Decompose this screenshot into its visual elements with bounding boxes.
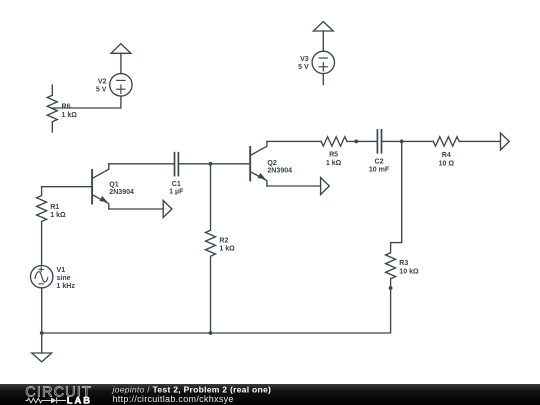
svg-text:joepinto / Test 2, Problem 2 (: joepinto / Test 2, Problem 2 (real one) [112, 384, 272, 394]
svg-text:C1: C1 [172, 181, 181, 188]
svg-text:5 V: 5 V [96, 86, 107, 93]
svg-text:R4: R4 [442, 152, 451, 159]
svg-text:1 kΩ: 1 kΩ [62, 112, 78, 119]
svg-text:R3: R3 [399, 260, 408, 267]
svg-text:1 kΩ: 1 kΩ [50, 212, 66, 219]
svg-text:http://circuitlab.com/ckhxsye: http://circuitlab.com/ckhxsye [113, 394, 234, 404]
svg-text:R6: R6 [62, 104, 71, 111]
svg-text:10 kΩ: 10 kΩ [399, 268, 419, 275]
svg-text:Q2: Q2 [267, 160, 276, 167]
svg-text:C2: C2 [374, 158, 383, 165]
svg-text:R5: R5 [329, 152, 338, 159]
svg-text:R2: R2 [219, 237, 228, 244]
svg-text:R1: R1 [50, 204, 59, 211]
svg-text:1 kΩ: 1 kΩ [326, 160, 342, 167]
svg-text:10 Ω: 10 Ω [439, 161, 455, 168]
svg-text:V1: V1 [57, 267, 66, 274]
svg-text:V3: V3 [300, 56, 309, 63]
svg-text:1 kΩ: 1 kΩ [219, 245, 235, 252]
svg-text:2N3904: 2N3904 [267, 167, 292, 174]
svg-text:1 µF: 1 µF [169, 188, 184, 195]
svg-text:5 V: 5 V [298, 64, 309, 71]
svg-text:10 mF: 10 mF [369, 167, 390, 174]
svg-text:LAB: LAB [67, 395, 92, 405]
svg-text:Q1: Q1 [109, 182, 118, 189]
svg-text:V2: V2 [98, 78, 107, 85]
svg-text:1 kHz: 1 kHz [57, 283, 76, 290]
svg-text:sine: sine [57, 275, 71, 282]
svg-text:2N3904: 2N3904 [109, 189, 134, 196]
